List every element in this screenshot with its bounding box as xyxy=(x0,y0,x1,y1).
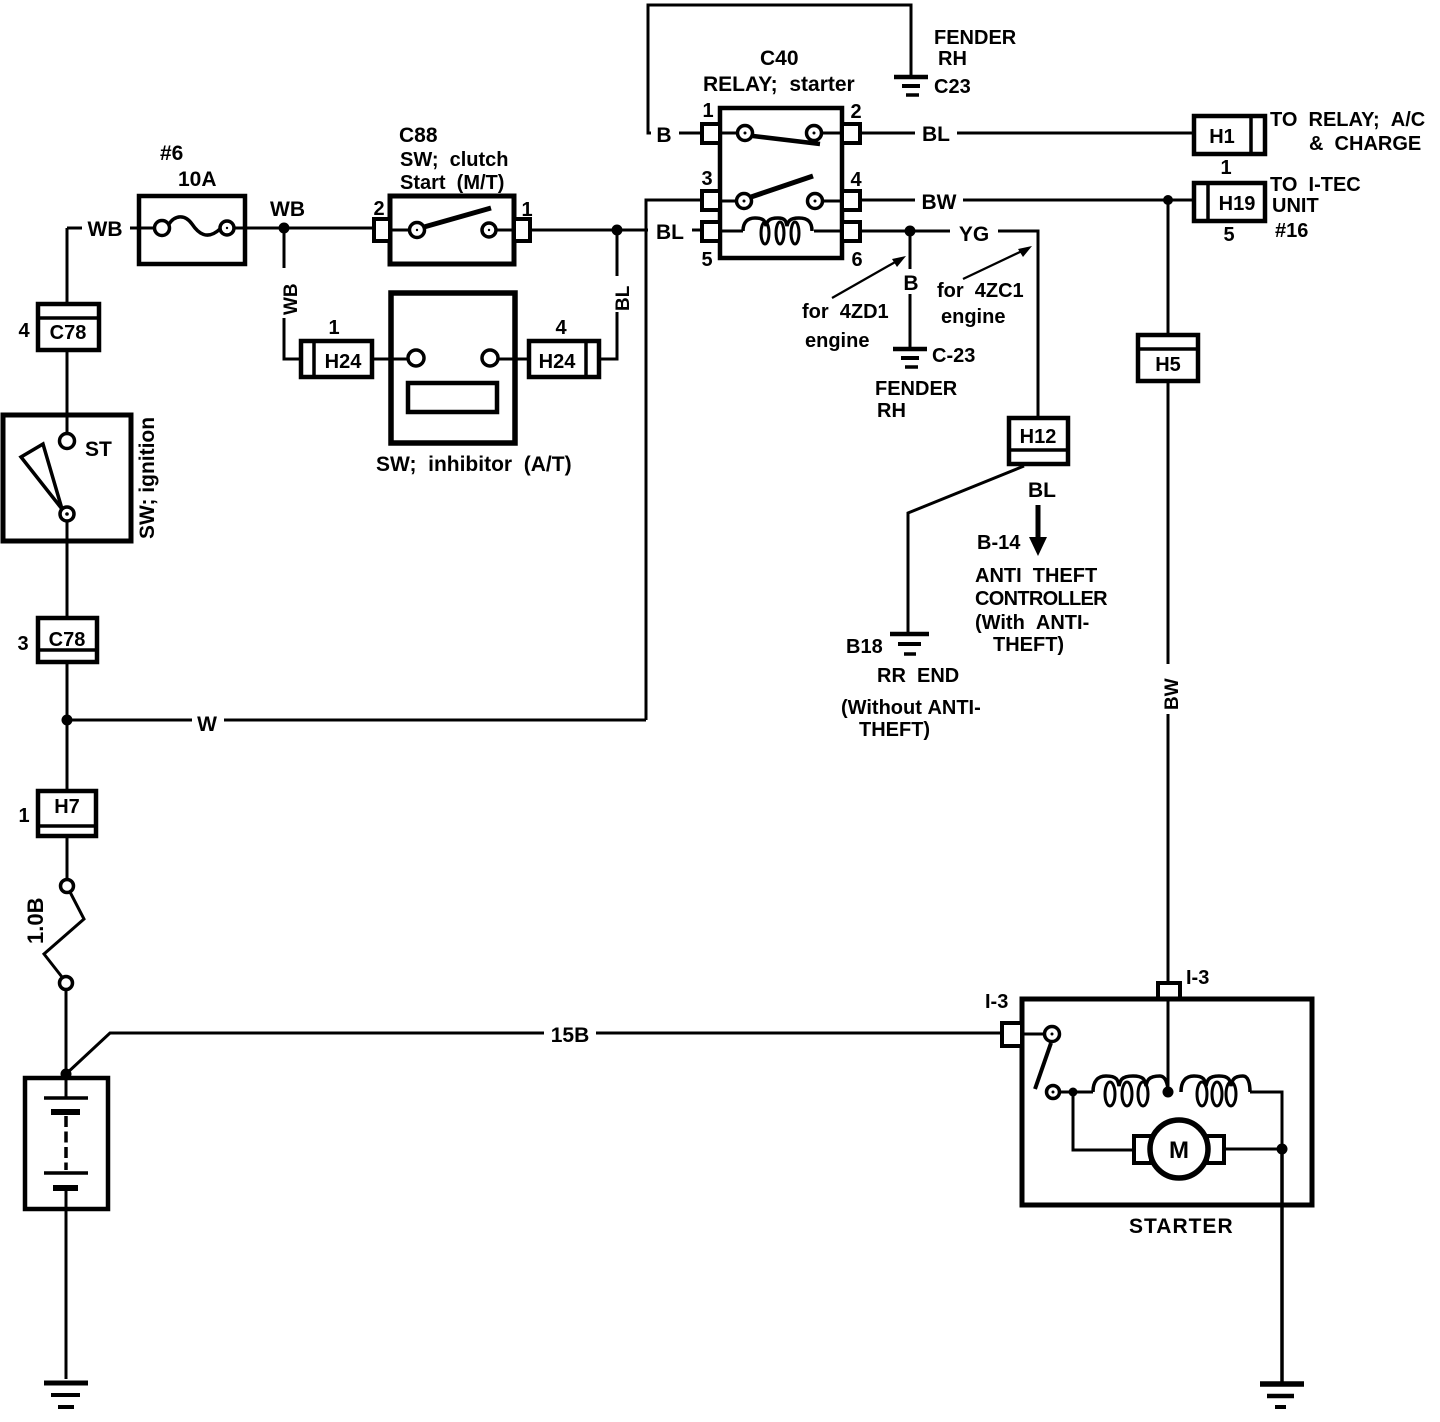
connector H5 xyxy=(1138,335,1198,381)
wire fusible link 1.0B zigzag xyxy=(44,892,84,977)
svg-text:H1: H1 xyxy=(1209,126,1235,148)
junction dot at solenoid coil left xyxy=(1069,1088,1078,1097)
svg-text:15B: 15B xyxy=(551,1024,590,1047)
svg-text:BL: BL xyxy=(922,123,950,146)
connector H7 xyxy=(38,791,96,836)
switch contact bottom xyxy=(1047,1086,1060,1099)
svg-text:I-3: I-3 xyxy=(985,991,1008,1013)
ground C23 fender xyxy=(894,77,928,95)
fuse #6 10A box xyxy=(139,196,245,264)
switch contact top xyxy=(1022,1033,1044,1036)
svg-text:BL: BL xyxy=(656,221,684,244)
junction dot center coil xyxy=(1163,1087,1174,1098)
svg-text:YG: YG xyxy=(959,223,989,246)
junction dot YG at relay pin6 xyxy=(905,226,916,237)
svg-text:4: 4 xyxy=(555,317,567,339)
svg-text:engine: engine xyxy=(941,306,1005,328)
wire BL net: relay pin2 to H1 xyxy=(860,132,1194,135)
svg-text:1: 1 xyxy=(328,317,339,339)
svg-text:SW; ignition: SW; ignition xyxy=(136,417,159,539)
junction dot W at left column xyxy=(62,715,73,726)
battery xyxy=(25,1078,108,1209)
switch C88 SW; clutch Start (M/T) xyxy=(374,196,530,264)
wire motor right terminal xyxy=(1224,1148,1282,1151)
svg-text:C-23: C-23 xyxy=(932,345,975,367)
wire WB drop from junction to H24 pin1 xyxy=(284,228,301,359)
svg-text:TO I-TEC: TO I-TEC xyxy=(1270,174,1361,196)
connector tab I-3 left of starter xyxy=(1002,1023,1022,1046)
label BW (vertical) on riser xyxy=(1153,664,1183,714)
connector H24 pin1 xyxy=(301,341,372,377)
svg-text:RH: RH xyxy=(877,400,906,422)
svg-text:H5: H5 xyxy=(1155,354,1181,376)
svg-text:3: 3 xyxy=(17,633,28,655)
junction dot BL at C88 output xyxy=(612,225,623,236)
svg-text:H24: H24 xyxy=(539,351,577,373)
svg-text:C78: C78 xyxy=(49,629,86,651)
wire left terminal loop xyxy=(1073,1092,1135,1150)
svg-text:FENDER: FENDER xyxy=(875,378,958,400)
arrow for 4ZC1 xyxy=(963,246,1032,279)
svg-text:4: 4 xyxy=(850,169,862,191)
svg-text:#16: #16 xyxy=(1275,220,1308,242)
wire H7 to fusible link circle xyxy=(66,836,69,880)
junction dot right rail xyxy=(1277,1144,1288,1155)
svg-text:TO RELAY; A/C: TO RELAY; A/C xyxy=(1270,109,1425,131)
svg-text:#6: #6 xyxy=(160,142,183,165)
connector H19 xyxy=(1194,183,1265,221)
svg-text:C88: C88 xyxy=(399,124,438,147)
svg-text:H19: H19 xyxy=(1219,193,1256,215)
svg-text:& CHARGE: & CHARGE xyxy=(1309,133,1421,155)
label YG on pin6 wire xyxy=(950,219,998,246)
switch SW; inhibitor (A/T) xyxy=(391,293,515,443)
svg-text:SW; inhibitor (A/T): SW; inhibitor (A/T) xyxy=(376,453,572,476)
wire ignition switch to C78(3) xyxy=(66,521,69,618)
svg-text:H12: H12 xyxy=(1020,426,1057,448)
svg-text:RH: RH xyxy=(938,48,967,70)
svg-text:C23: C23 xyxy=(934,76,971,98)
label W on wire xyxy=(192,708,224,736)
svg-text:FENDER: FENDER xyxy=(934,27,1017,49)
connector H1 xyxy=(1194,116,1265,154)
svg-text:ANTI THEFT: ANTI THEFT xyxy=(975,565,1097,587)
svg-text:M: M xyxy=(1169,1137,1189,1164)
ground C-23 fender xyxy=(893,349,927,367)
label B on drop wire xyxy=(899,269,923,295)
wire H24 pin1 to inhibitor switch xyxy=(372,358,391,361)
svg-text:C78: C78 xyxy=(50,322,87,344)
ground battery xyxy=(44,1383,88,1407)
svg-text:WB: WB xyxy=(270,198,305,221)
junction dot WB below fuse xyxy=(279,223,290,234)
wire BW riser: junction down through H5 to starter I-3 xyxy=(1167,200,1170,983)
wire C78(3) to H7 through W junction xyxy=(66,662,69,791)
label BL (vertical) on drop wire xyxy=(604,276,634,312)
svg-text:THEFT): THEFT) xyxy=(859,719,930,741)
fusible link circles xyxy=(61,880,74,893)
label WB at left wire xyxy=(82,216,130,241)
solenoid coil 2 xyxy=(1181,1076,1250,1092)
svg-text:5: 5 xyxy=(701,249,712,271)
svg-text:RELAY; starter: RELAY; starter xyxy=(703,73,855,96)
starter box xyxy=(1022,999,1312,1205)
svg-text:(Without ANTI-: (Without ANTI- xyxy=(841,697,981,719)
svg-text:THEFT): THEFT) xyxy=(993,634,1064,656)
wire C88 to relay pin5 (BL) xyxy=(529,229,702,232)
wire from I-3 tab down to coil junction xyxy=(1167,999,1170,1092)
svg-text:RR END: RR END xyxy=(877,665,959,687)
starter internals xyxy=(1022,999,1288,1178)
wire YG net: relay pin6 to H12 xyxy=(860,231,1038,418)
svg-text:H24: H24 xyxy=(325,351,363,373)
svg-text:CONTROLLER: CONTROLLER xyxy=(975,588,1108,610)
wire B net: relay pin1 loop to fender ground xyxy=(648,5,911,133)
svg-text:10A: 10A xyxy=(178,168,217,191)
svg-text:2: 2 xyxy=(373,198,384,220)
svg-text:BL: BL xyxy=(1028,479,1056,502)
svg-text:WB: WB xyxy=(281,283,302,315)
label B on pin1 wire xyxy=(651,118,679,147)
svg-text:STARTER: STARTER xyxy=(1129,1215,1234,1238)
label 15B on wire xyxy=(544,1020,596,1047)
svg-text:SW; clutch: SW; clutch xyxy=(400,149,509,171)
solenoid coil 1 xyxy=(1093,1076,1168,1092)
svg-text:1: 1 xyxy=(1220,157,1231,179)
svg-text:6: 6 xyxy=(851,249,862,271)
wire starter to ground xyxy=(1280,1149,1284,1382)
label BW on pin4 wire xyxy=(915,188,963,214)
svg-text:BW: BW xyxy=(1162,678,1183,710)
connector tab I-3 top of starter xyxy=(1158,983,1180,999)
svg-text:1.0B: 1.0B xyxy=(23,898,48,944)
svg-text:C40: C40 xyxy=(760,47,799,70)
wire inhibitor switch to H24 pin4 xyxy=(515,358,529,361)
ground B18 rear end xyxy=(890,634,929,654)
arrow for 4ZD1 xyxy=(832,256,906,298)
svg-text:B: B xyxy=(656,124,671,147)
wire WB vertical left column down to C78 xyxy=(66,228,69,304)
wire battery to ground xyxy=(65,1180,68,1379)
switch SW; ignition (ST) xyxy=(3,415,131,541)
svg-text:for 4ZC1: for 4ZC1 xyxy=(937,280,1024,302)
svg-text:1: 1 xyxy=(18,805,29,827)
connector H12 xyxy=(1009,418,1068,464)
motor M xyxy=(1134,1136,1151,1163)
wire H12 to B18 ground xyxy=(908,466,1024,632)
junction dot 15B at battery positive xyxy=(61,1069,72,1080)
svg-text:3: 3 xyxy=(701,168,712,190)
svg-text:1: 1 xyxy=(521,199,532,221)
svg-text:2: 2 xyxy=(850,101,861,123)
wire BW net: relay pin4 to H19 xyxy=(860,199,1194,202)
svg-text:ST: ST xyxy=(85,438,112,461)
wire W net: junction to right riser xyxy=(67,719,646,722)
wire fusible link to battery junction xyxy=(65,990,68,1074)
wire BL drop from junction to H24 pin4 xyxy=(599,230,617,359)
svg-text:BL: BL xyxy=(613,285,634,311)
svg-text:B-14: B-14 xyxy=(977,532,1021,554)
wire 15B net: battery junction to starter I-3 tab xyxy=(66,1033,1002,1074)
svg-text:B: B xyxy=(903,272,918,295)
wire C78(4) to ignition switch xyxy=(66,350,69,434)
label BL on pin2 wire xyxy=(915,119,957,146)
svg-text:B18: B18 xyxy=(846,636,883,658)
svg-text:H7: H7 xyxy=(54,796,80,818)
wire B drop from YG junction to C-23 ground xyxy=(909,231,912,347)
ground starter xyxy=(1260,1384,1304,1407)
svg-text:WB: WB xyxy=(88,218,123,241)
wire W riser up to relay pin3 xyxy=(646,200,702,720)
junction dot BW at H19 xyxy=(1163,195,1173,205)
connector C78 pin4 xyxy=(38,304,99,350)
svg-text:I-3: I-3 xyxy=(1186,967,1209,989)
switch lever xyxy=(1035,1043,1051,1089)
svg-text:BW: BW xyxy=(922,191,957,214)
svg-text:4: 4 xyxy=(18,320,30,342)
svg-text:(With ANTI-: (With ANTI- xyxy=(975,612,1089,634)
svg-text:5: 5 xyxy=(1223,224,1234,246)
svg-text:UNIT: UNIT xyxy=(1272,195,1319,217)
label BL on wire to relay pin5 xyxy=(648,218,692,244)
wire WB net: left stub, fuse row to C88 xyxy=(67,227,138,230)
wire coil2 to right rail xyxy=(1250,1092,1282,1149)
arrow B-14 xyxy=(1029,505,1047,556)
svg-text:1: 1 xyxy=(702,100,713,122)
svg-text:engine: engine xyxy=(805,330,869,352)
svg-text:Start (M/T): Start (M/T) xyxy=(400,172,504,194)
connector H24 pin4 xyxy=(529,341,599,377)
connector C78 pin3 xyxy=(38,618,97,662)
svg-text:W: W xyxy=(197,713,217,736)
label WB (vertical) on drop wire xyxy=(272,268,302,318)
svg-text:for 4ZD1: for 4ZD1 xyxy=(802,301,889,323)
relay C40 starter xyxy=(702,108,860,258)
